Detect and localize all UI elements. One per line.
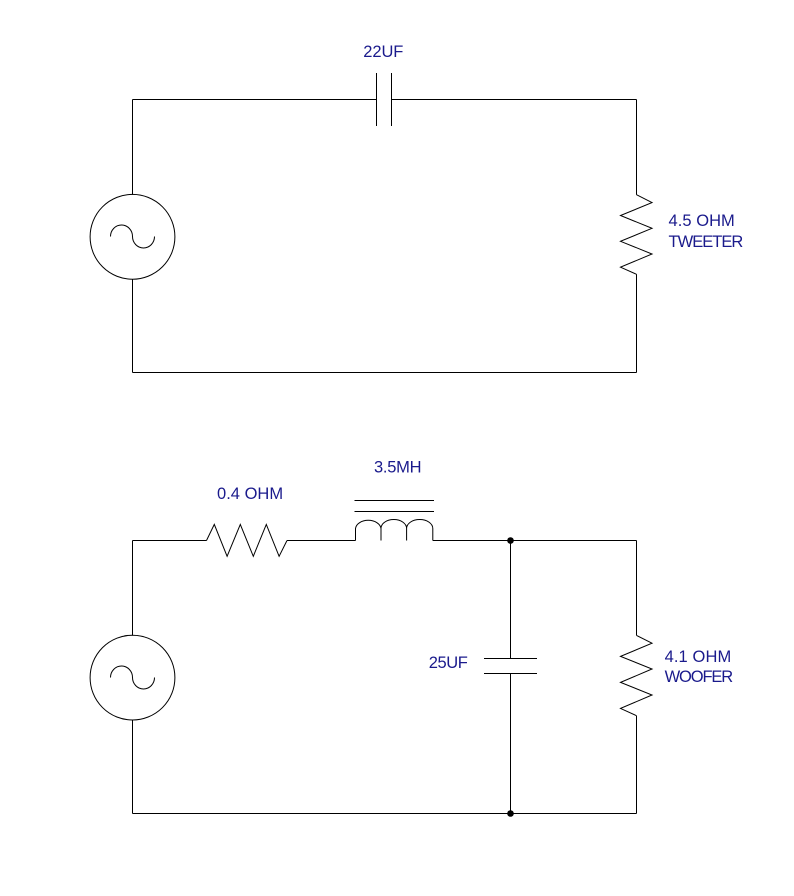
wire top-right (capacitor C1 to resistor R1) xyxy=(392,99,637,101)
AC source V1 xyxy=(90,194,175,279)
wire left lower (source V2 to bottom wire) xyxy=(132,720,134,814)
wire bottom (top circuit) xyxy=(133,372,637,374)
svg-text:0.4 OHM: 0.4 OHM xyxy=(217,485,283,503)
svg-text:WOOFER: WOOFER xyxy=(665,668,734,686)
node A junction dot xyxy=(507,537,514,544)
svg-text:25UF: 25UF xyxy=(429,654,468,672)
wire (resistor R2 to inductor L1) xyxy=(287,540,356,542)
svg-text:4.1 OHM: 4.1 OHM xyxy=(665,648,732,666)
wire right lower (resistor R1 to bottom wire) xyxy=(636,274,638,372)
svg-text:3.5MH: 3.5MH xyxy=(374,459,422,477)
resistor R3 4.1 OHM WOOFER xyxy=(621,635,653,715)
node B junction dot xyxy=(507,810,514,817)
resistor R2 0.4 OHM xyxy=(207,524,288,556)
wire bottom (bottom circuit) xyxy=(133,813,637,815)
wire capacitor C2 branch lower xyxy=(510,674,512,814)
wire left lower (source V1 to bottom wire) xyxy=(132,279,134,372)
wire (inductor L1 to right side, through node A) xyxy=(433,540,637,542)
capacitor C1 22UF xyxy=(377,73,392,126)
inductor L1 3.5MH xyxy=(355,501,435,541)
svg-text:4.5 OHM: 4.5 OHM xyxy=(669,212,735,230)
wire right upper (top wire to resistor R3) xyxy=(636,541,638,636)
wire right lower (resistor R3 to bottom wire) xyxy=(636,716,638,814)
svg-text:TWEETER: TWEETER xyxy=(669,233,744,251)
wire left upper (top wire to source V1) xyxy=(132,100,134,195)
wire top-left (source V2 to resistor R2) xyxy=(133,540,207,542)
AC source V2 xyxy=(90,635,175,720)
wire capacitor C2 branch upper xyxy=(510,541,512,659)
svg-text:22UF: 22UF xyxy=(363,43,403,61)
capacitor C2 25UF xyxy=(484,659,537,674)
wire top-left (source to capacitor C1) xyxy=(133,99,377,101)
wire right upper (top wire to resistor R1) xyxy=(636,100,638,195)
resistor R1 4.5 OHM TWEETER xyxy=(621,195,653,275)
wire left upper (top wire to source V2) xyxy=(132,541,134,636)
